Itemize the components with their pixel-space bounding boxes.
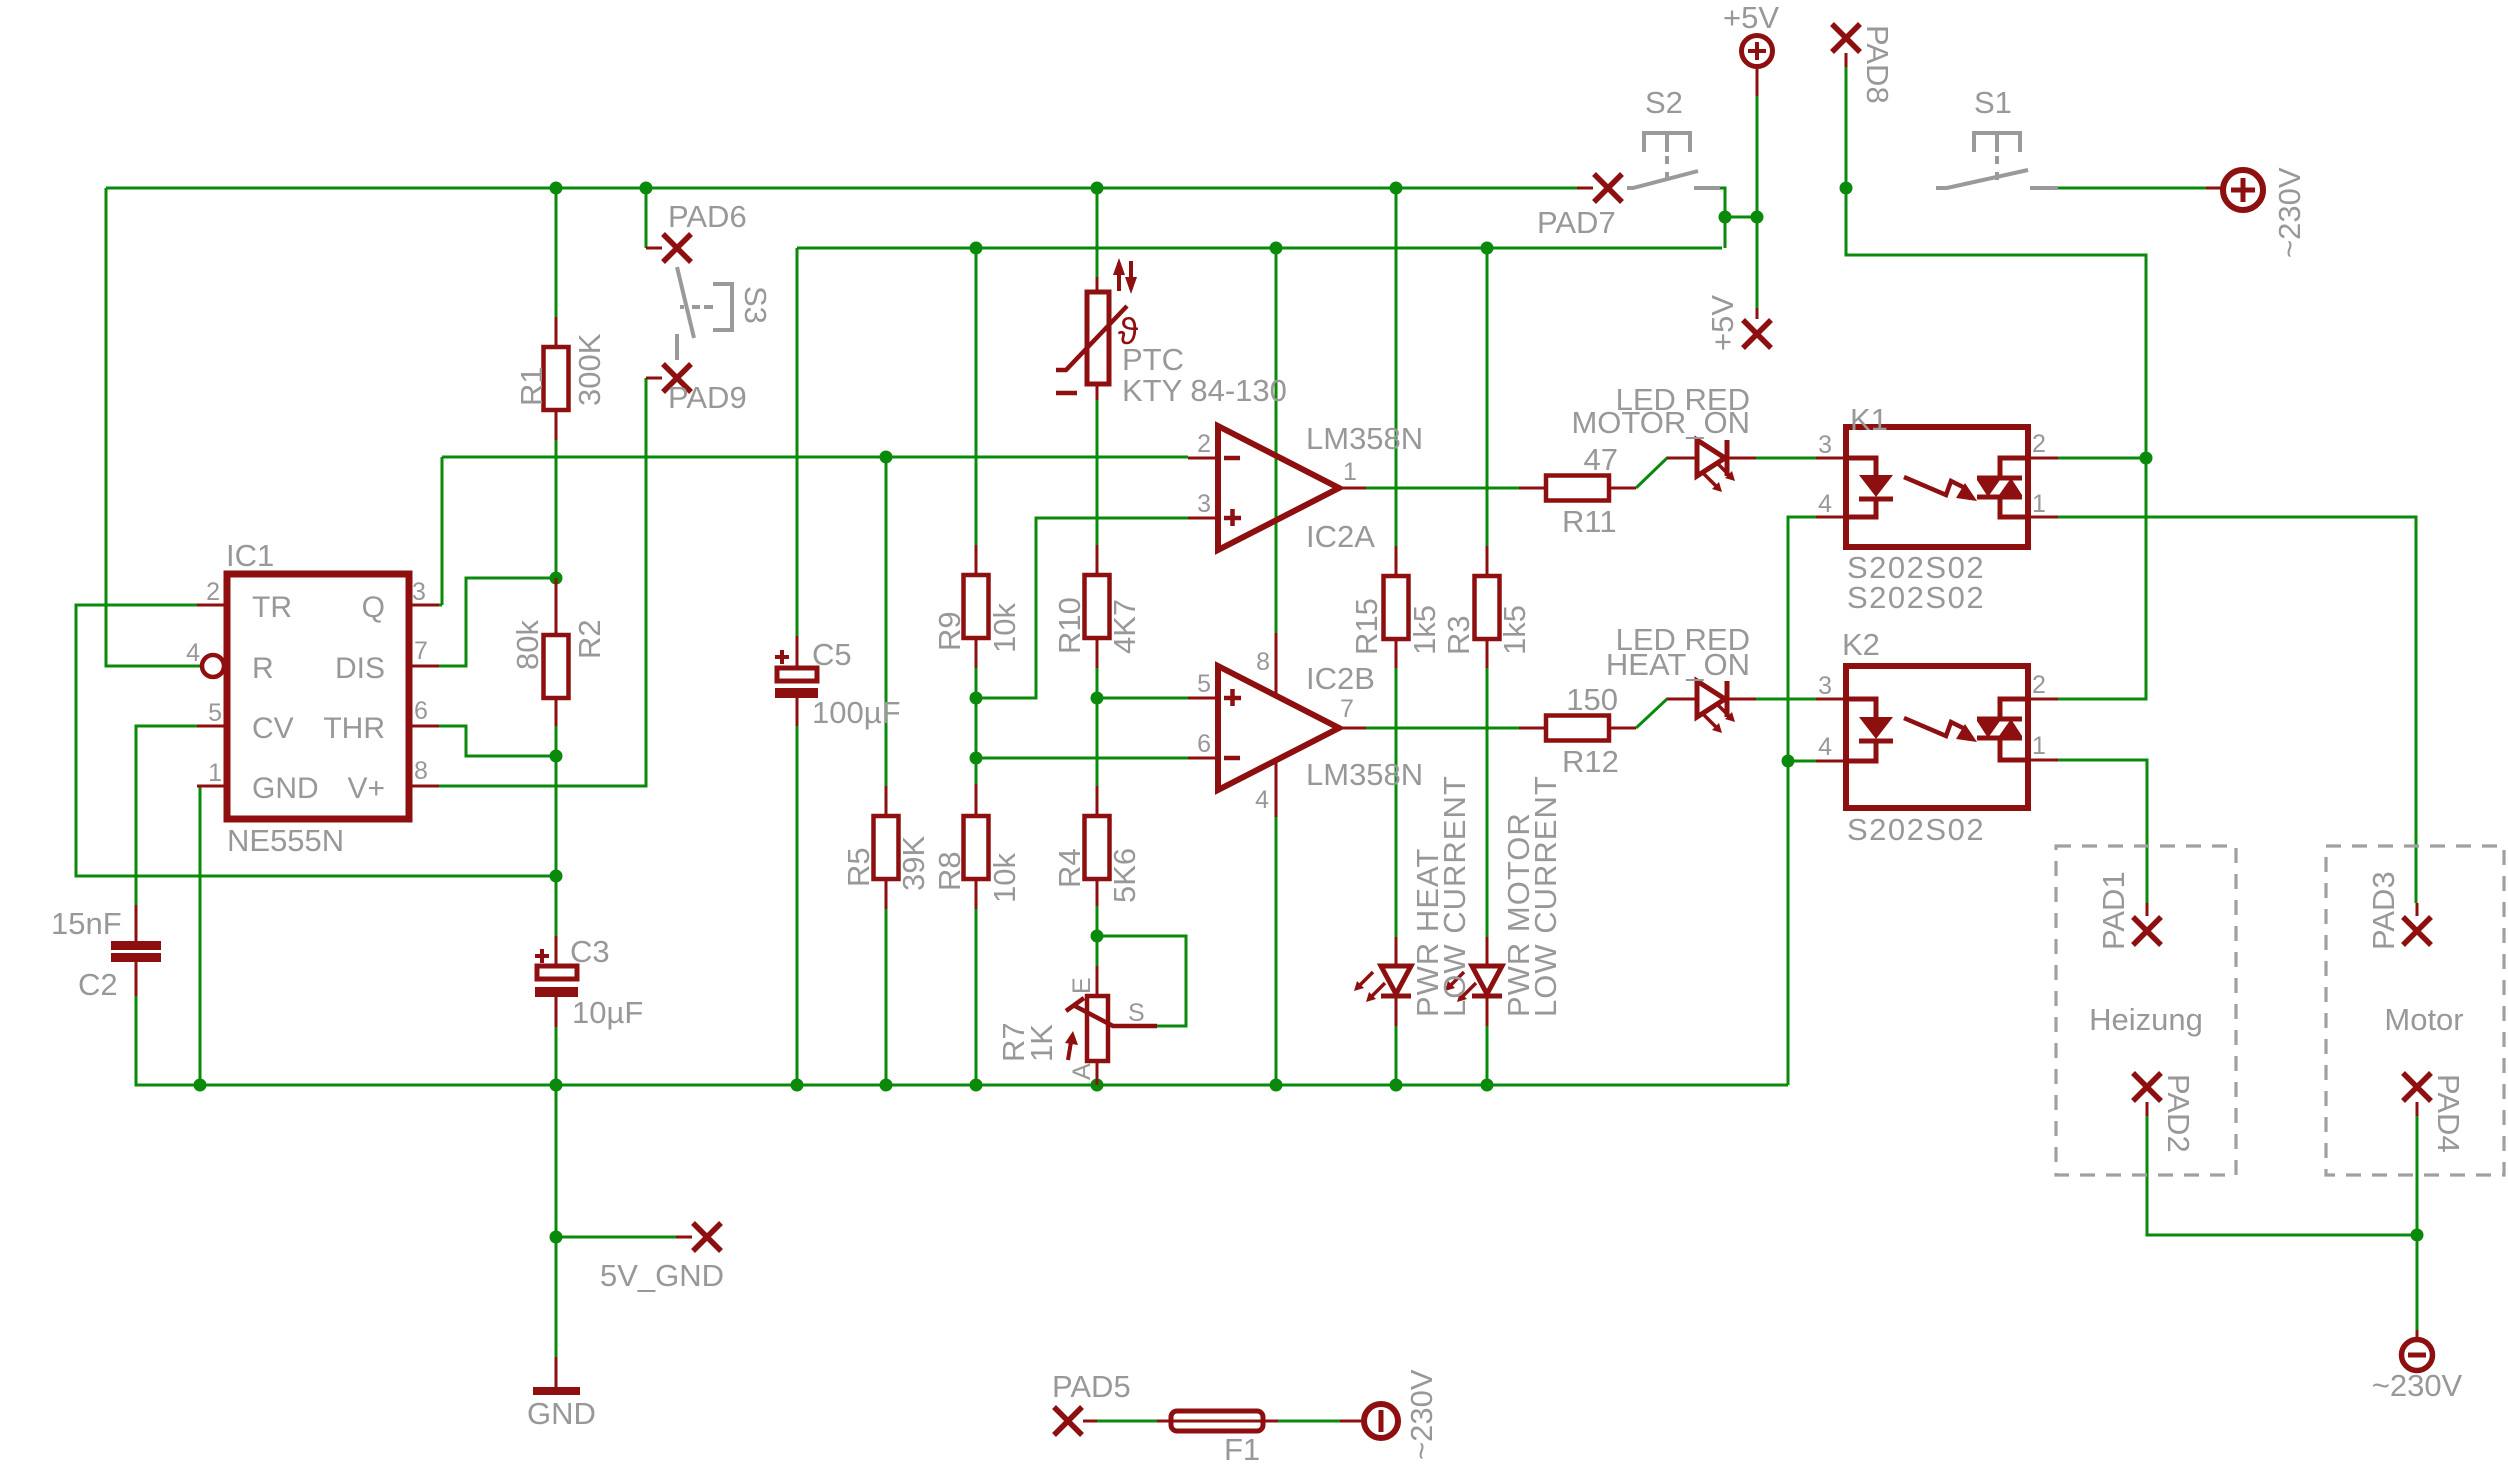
svg-text:2: 2 xyxy=(1197,430,1211,458)
junction xyxy=(1091,692,1104,705)
wire to PAD6 xyxy=(645,188,648,248)
junction xyxy=(791,1079,804,1092)
+5V circle lead xyxy=(1756,66,1759,96)
wire F1 to 230V neutral xyxy=(1278,1420,1340,1423)
resistor R4 xyxy=(1085,816,1110,879)
pad PAD9 cross xyxy=(663,364,691,392)
capacitor C5 top plate xyxy=(777,668,817,681)
junction xyxy=(970,1079,983,1092)
svg-text:R12: R12 xyxy=(1562,744,1619,779)
K2 output triac xyxy=(2000,699,2028,760)
pad PAD7 cross xyxy=(1594,174,1622,202)
wire PWR HEAT LED to GND xyxy=(1395,1026,1398,1085)
resistor R4 bottom lead xyxy=(1096,879,1099,906)
svg-text:R3: R3 xyxy=(1441,615,1476,655)
svg-text:1: 1 xyxy=(208,759,222,787)
optocoupler K2 box xyxy=(1846,666,2028,808)
resistor R10 xyxy=(1085,575,1110,638)
svg-text:PAD8: PAD8 xyxy=(1860,25,1895,104)
op-amp U IC1 NE555N box xyxy=(227,574,409,819)
LED HEAT_ON emission arrows xyxy=(1703,703,1730,728)
capacitor C3 top plate xyxy=(537,966,577,979)
junction xyxy=(970,752,983,765)
K1 pin4 stub xyxy=(1816,516,1846,519)
resistor R9 xyxy=(964,575,989,638)
LED PWR HEAT diode xyxy=(1381,966,1411,994)
svg-text:E: E xyxy=(1068,977,1096,994)
wire LED to K1 pin3 xyxy=(1756,457,1816,460)
resistor R15 xyxy=(1384,576,1409,639)
svg-text:10k: 10k xyxy=(987,603,1022,653)
wire IC2A out to R11 xyxy=(1366,487,1519,490)
svg-text:7: 7 xyxy=(1340,695,1354,723)
trimmer R7 body xyxy=(1087,996,1108,1061)
junction xyxy=(1270,242,1283,255)
IC2B minus symbol xyxy=(1224,756,1240,761)
svg-text:PTC: PTC xyxy=(1122,342,1184,377)
thermistor PTC arrows xyxy=(1117,263,1121,291)
wire C5 bottom xyxy=(796,726,799,1085)
svg-text:5V_GND: 5V_GND xyxy=(600,1258,724,1293)
K2 pin3 stub xyxy=(1816,698,1846,701)
wire R11 to LED xyxy=(1636,458,1697,488)
capacitor C2 bottom lead xyxy=(135,962,138,996)
svg-text:HEAT_ON: HEAT_ON xyxy=(1606,647,1750,682)
PAD4 lead xyxy=(2416,1102,2419,1116)
wire IC2B V+ column xyxy=(1275,248,1278,633)
junction xyxy=(550,870,563,883)
K1 coupling arrow xyxy=(1904,477,1963,495)
wire DIS jog xyxy=(439,578,556,666)
IC2B -in stub xyxy=(1188,757,1218,760)
svg-text:S202S02: S202S02 xyxy=(1847,580,1985,615)
resistor R8 top lead xyxy=(975,784,978,816)
PAD2 lead xyxy=(2146,1102,2149,1116)
PAD9 lead xyxy=(646,377,662,380)
svg-text:80k: 80k xyxy=(510,620,545,670)
K2 input LED xyxy=(1846,699,1876,761)
svg-text:+5V: +5V xyxy=(1705,295,1740,351)
IC2B +in stub xyxy=(1188,697,1218,700)
wire K1 pin2 row xyxy=(2058,457,2146,460)
svg-text:GND: GND xyxy=(527,1396,596,1431)
K1 pin3 stub xyxy=(1816,457,1846,460)
svg-text:PAD1: PAD1 xyxy=(2096,871,2131,950)
wire IC2B V- column xyxy=(1275,817,1278,1085)
svg-text:100µF: 100µF xyxy=(812,695,901,730)
IC2B V+ pin stub xyxy=(1275,633,1278,697)
junction xyxy=(550,1079,563,1092)
svg-text:LM358N: LM358N xyxy=(1306,421,1423,456)
PAD8 lead xyxy=(1845,53,1848,67)
svg-text:2: 2 xyxy=(2032,671,2046,699)
PAD7 lead xyxy=(1577,187,1593,190)
resistor R10 bottom lead xyxy=(1096,638,1099,668)
wire to IC1 pin4 R xyxy=(106,188,202,666)
wire R4 to R7 xyxy=(1096,906,1099,966)
+5V pad lead xyxy=(1756,308,1759,319)
svg-text:R4: R4 xyxy=(1052,848,1087,888)
svg-text:R: R xyxy=(252,652,274,685)
svg-text:C3: C3 xyxy=(570,934,610,969)
junction xyxy=(1840,182,1853,195)
capacitor C5 bottom plate xyxy=(775,688,818,698)
svg-text:V+: V+ xyxy=(347,772,385,805)
wire IC2B out to R12 xyxy=(1366,727,1519,730)
wire R1 bottom to node xyxy=(555,440,558,578)
wire to IC2A +in xyxy=(976,518,1188,698)
resistor R3 top lead xyxy=(1486,546,1489,576)
K2 pin1 stub xyxy=(2028,759,2058,762)
K1 pin1 stub xyxy=(2028,516,2058,519)
svg-text:PAD2: PAD2 xyxy=(2161,1074,2196,1153)
svg-text:R9: R9 xyxy=(932,611,967,651)
wire R9 top xyxy=(975,248,978,545)
wire +5V rail B xyxy=(797,247,1722,250)
svg-text:MOTOR_ON: MOTOR_ON xyxy=(1571,405,1750,440)
wire PTC top xyxy=(1096,188,1099,277)
svg-text:3: 3 xyxy=(412,578,426,606)
wire PAD2 down xyxy=(2147,1116,2417,1235)
wire CV to C2 xyxy=(136,726,197,905)
capacitor C3 bottom lead xyxy=(555,997,558,1027)
svg-text:IC2B: IC2B xyxy=(1306,661,1375,696)
svg-text:PAD6: PAD6 xyxy=(668,199,747,234)
Heizung dashed box xyxy=(2056,846,2236,1175)
svg-text:C5: C5 xyxy=(812,637,852,672)
svg-text:S2: S2 xyxy=(1645,85,1683,120)
pad +5V cross xyxy=(1743,320,1771,348)
LED PWR MOTOR diode xyxy=(1472,966,1502,994)
IC2B plus symbol xyxy=(1224,689,1241,706)
capacitor C2 top lead xyxy=(135,905,138,941)
LED MOTOR_ON anode lead xyxy=(1667,457,1697,460)
wire to 5V_GND pad xyxy=(556,1236,676,1239)
svg-text:1: 1 xyxy=(2032,490,2046,518)
resistor R12 xyxy=(1546,716,1609,741)
svg-text:S: S xyxy=(1128,999,1145,1027)
LED PWR MOTOR bottom lead xyxy=(1486,996,1489,1026)
LED MOTOR_ON cathode lead xyxy=(1727,457,1756,460)
junction xyxy=(880,1079,893,1092)
svg-text:F1: F1 xyxy=(1224,1432,1260,1465)
junction xyxy=(194,1079,207,1092)
svg-text:C2: C2 xyxy=(78,967,118,1002)
wire S1 to 230V live xyxy=(2058,187,2206,190)
svg-text:3: 3 xyxy=(1197,490,1211,518)
op-amp IC2B triangle xyxy=(1218,666,1339,790)
IC1 pin 7 stub xyxy=(409,665,439,668)
IC1 pin 4 inversion bubble xyxy=(202,655,224,677)
junction xyxy=(1481,1079,1494,1092)
svg-text:47: 47 xyxy=(1584,442,1618,477)
junction xyxy=(1390,1079,1403,1092)
thermistor PTC strike line xyxy=(1056,306,1127,370)
trimmer R7 adjust arrow xyxy=(1068,1036,1072,1060)
GND symbol lead xyxy=(555,1357,558,1389)
op-amp IC2A triangle xyxy=(1218,426,1339,550)
svg-text:1k5: 1k5 xyxy=(1497,605,1532,655)
wire K1 pin4 to GND rail xyxy=(1788,517,1816,1085)
junction xyxy=(1390,182,1403,195)
pad 5V_GND cross xyxy=(693,1223,721,1251)
resistor R2 bottom lead xyxy=(555,698,558,726)
svg-text:8: 8 xyxy=(1256,648,1270,676)
svg-text:39K: 39K xyxy=(896,836,931,891)
resistor R9 bottom lead xyxy=(975,638,978,668)
svg-text:3: 3 xyxy=(1818,672,1832,700)
IC1 pin 6 stub xyxy=(409,725,439,728)
capacitor C2 plates xyxy=(111,941,161,950)
resistor R12 right lead xyxy=(1609,727,1636,730)
resistor R9 top lead xyxy=(975,545,978,575)
resistor R15 top lead xyxy=(1395,546,1398,576)
junction xyxy=(640,182,653,195)
ground GND bar xyxy=(533,1387,580,1395)
IC1 pin 2 stub xyxy=(197,604,227,607)
LED PWR HEAT top lead xyxy=(1395,937,1398,966)
svg-text:1k5: 1k5 xyxy=(1407,605,1442,655)
wire C3 bottom to GND rail xyxy=(555,1027,558,1085)
junction xyxy=(1481,242,1494,255)
resistor R5 bottom lead xyxy=(885,879,888,909)
resistor R1 xyxy=(544,347,569,410)
LED PWR HEAT emission arrows xyxy=(1359,972,1385,997)
svg-text:~230V: ~230V xyxy=(1404,1369,1439,1460)
wire R2 bottom xyxy=(555,726,558,756)
svg-text:IC1: IC1 xyxy=(226,538,274,573)
resistor R8 bottom lead xyxy=(975,879,978,909)
optocoupler K1 box xyxy=(1846,427,2028,547)
wire +5V rail top xyxy=(106,187,1577,190)
svg-text:K2: K2 xyxy=(1842,627,1880,662)
230V neutral lead xyxy=(1340,1420,1364,1423)
wire THR jog xyxy=(439,726,556,756)
pad PAD1 cross xyxy=(2133,917,2161,945)
svg-text:10k: 10k xyxy=(987,853,1022,903)
switch S1 xyxy=(1936,170,2028,188)
svg-text:Motor: Motor xyxy=(2384,1002,2463,1037)
svg-text:LOW CURRENT: LOW CURRENT xyxy=(1528,775,1563,1017)
wire IC1 pin1 GND down xyxy=(197,786,200,1085)
wire K2 pin4 branch xyxy=(1788,760,1816,763)
svg-text:6: 6 xyxy=(414,697,428,725)
pad PAD2 cross xyxy=(2133,1073,2161,1101)
resistor R3 xyxy=(1475,576,1500,639)
svg-text:PAD9: PAD9 xyxy=(668,380,747,415)
wire C2 bottom to GND rail xyxy=(136,996,197,1085)
svg-text:CV: CV xyxy=(252,712,294,745)
svg-text:LM358N: LM358N xyxy=(1306,757,1423,792)
wire PAD4 to 230V return xyxy=(2416,1116,2419,1330)
junction xyxy=(1782,755,1795,768)
PAD3 lead xyxy=(2416,903,2419,916)
resistor R1 bottom lead xyxy=(555,410,558,440)
wire +5V column xyxy=(1756,96,1759,308)
LED HEAT_ON anode lead xyxy=(1667,698,1697,701)
PAD6 lead xyxy=(646,247,662,250)
wire R7 wiper loop xyxy=(1097,936,1186,1026)
IC2B out stub xyxy=(1339,727,1366,730)
svg-text:2: 2 xyxy=(2032,430,2046,458)
svg-text:8: 8 xyxy=(414,757,428,785)
resistor R4 top lead xyxy=(1096,786,1099,816)
wire PWR MOTOR LED to GND xyxy=(1486,1026,1489,1085)
junction xyxy=(1719,211,1732,224)
resistor R15 bottom lead xyxy=(1395,639,1398,668)
wire to C3 top xyxy=(555,876,558,936)
trimmer R7 bottom lead xyxy=(1096,1061,1099,1085)
230V live lead xyxy=(2206,187,2222,190)
5V_GND lead xyxy=(676,1236,692,1239)
thermistor PTC bottom lead xyxy=(1096,384,1099,400)
capacitor C5 plus sign xyxy=(775,650,789,664)
resistor R11 xyxy=(1546,476,1609,501)
junction xyxy=(1270,1079,1283,1092)
resistor R2 top lead xyxy=(555,578,558,635)
wire R3 top xyxy=(1486,248,1489,546)
IC1 pin 5 stub xyxy=(197,725,227,728)
svg-text:4: 4 xyxy=(186,639,200,667)
svg-text:LOW CURRENT: LOW CURRENT xyxy=(1437,775,1472,1017)
wire R9-R8 link xyxy=(975,668,978,784)
thermistor PTC top lead xyxy=(1096,277,1099,292)
capacitor C5 bottom lead xyxy=(796,698,799,726)
wire V+ row to PAD9 xyxy=(439,378,646,786)
svg-text:R5: R5 xyxy=(841,847,876,887)
junction xyxy=(1091,930,1104,943)
svg-text:150: 150 xyxy=(1566,682,1618,717)
junction xyxy=(550,1231,563,1244)
svg-text:R15: R15 xyxy=(1349,598,1384,655)
LED HEAT_ON cathode lead xyxy=(1727,698,1756,701)
capacitor C3 plus sign xyxy=(535,949,549,963)
junction xyxy=(970,692,983,705)
wire PAD8/S1 to K2 pin2 xyxy=(1846,67,2146,699)
svg-text:THR: THR xyxy=(323,712,385,745)
trimmer R7 top lead xyxy=(1096,966,1099,996)
thermistor PTC body xyxy=(1087,292,1109,384)
wire LED to K2 pin3 xyxy=(1756,698,1816,701)
K2 pin2 stub xyxy=(2028,698,2058,701)
svg-text:DIS: DIS xyxy=(335,652,385,685)
svg-text:1: 1 xyxy=(1343,458,1357,486)
LED PWR HEAT bottom lead xyxy=(1395,996,1398,1026)
wire +5V bridge xyxy=(1725,216,1757,219)
junction xyxy=(1091,1079,1104,1092)
svg-text:1: 1 xyxy=(2032,732,2046,760)
IC2A minus symbol xyxy=(1224,456,1240,461)
wire S2 out riser xyxy=(1720,188,1725,248)
wire PTC to R10 xyxy=(1096,400,1099,545)
junction xyxy=(970,242,983,255)
svg-text:NE555N: NE555N xyxy=(227,823,344,858)
PAD1 lead xyxy=(2146,903,2149,916)
resistor R5 top lead xyxy=(885,786,888,816)
svg-text:4: 4 xyxy=(1818,490,1832,518)
K1 output triac xyxy=(2000,458,2028,517)
IC2A -in stub xyxy=(1188,457,1218,460)
capacitor C5 top lead xyxy=(796,636,799,668)
LED PWR MOTOR emission arrows xyxy=(1450,972,1476,997)
IC1 pin 8 stub xyxy=(409,785,439,788)
wire to IC2B -in xyxy=(976,757,1188,760)
pad PAD8 cross xyxy=(1832,24,1860,52)
svg-text:Q: Q xyxy=(362,591,385,624)
wire C5 top xyxy=(796,248,799,636)
svg-text:7: 7 xyxy=(414,637,428,665)
fuse F1 left lead xyxy=(1157,1420,1171,1423)
wire R10-R4 link xyxy=(1096,668,1099,786)
wire R1 top xyxy=(555,188,558,317)
K2 pin4 stub xyxy=(1816,760,1846,763)
fuse F1 right lead xyxy=(1263,1420,1278,1423)
svg-text:GND: GND xyxy=(252,772,319,805)
junction xyxy=(1751,211,1764,224)
svg-text:R8: R8 xyxy=(932,851,967,891)
K1 pin2 stub xyxy=(2028,457,2058,460)
svg-text:~230V: ~230V xyxy=(2372,1368,2463,1403)
svg-text:PAD3: PAD3 xyxy=(2366,871,2401,950)
capacitor C3 top lead xyxy=(555,936,558,966)
pad PAD6 cross xyxy=(663,234,691,262)
wire R15 to PWR HEAT LED xyxy=(1395,668,1398,937)
svg-text:R1: R1 xyxy=(514,366,549,406)
Motor dashed box xyxy=(2326,846,2504,1175)
svg-text:4K7: 4K7 xyxy=(1107,599,1142,654)
svg-text:4: 4 xyxy=(1255,786,1269,814)
wire K1 pin1 to PAD3 xyxy=(2058,517,2416,903)
LED MOTOR_ON emission arrows xyxy=(1703,462,1730,487)
pad PAD3 cross xyxy=(2403,917,2431,945)
svg-text:2: 2 xyxy=(206,578,220,606)
wire THR-TR link xyxy=(555,756,558,876)
trimmer R7 wiper xyxy=(1066,998,1157,1026)
svg-text:5: 5 xyxy=(208,699,222,727)
wire to IC2B +in xyxy=(1097,697,1188,700)
resistor R10 top lead xyxy=(1096,545,1099,575)
svg-text:R10: R10 xyxy=(1052,597,1087,654)
wire R5 bottom xyxy=(885,909,888,1085)
svg-text:5K6: 5K6 xyxy=(1107,848,1142,903)
resistor R11 left lead xyxy=(1519,487,1546,490)
resistor R5 xyxy=(874,816,899,879)
IC1 pin 1 stub xyxy=(197,785,227,788)
LED PWR MOTOR top lead xyxy=(1486,937,1489,966)
230V return lead xyxy=(2416,1330,2419,1339)
junction xyxy=(550,750,563,763)
resistor R8 xyxy=(964,816,989,879)
svg-text:R2: R2 xyxy=(572,619,607,659)
junction xyxy=(1091,182,1104,195)
svg-text:S202S02: S202S02 xyxy=(1847,812,1985,847)
pad PAD4 cross xyxy=(2403,1073,2431,1101)
wire TR loop xyxy=(76,605,556,876)
wire GND stem xyxy=(555,1085,558,1357)
resistor R1 top lead xyxy=(555,317,558,347)
IC1 pin 3 stub xyxy=(409,604,439,607)
svg-text:3: 3 xyxy=(1818,431,1832,459)
svg-text:~230V: ~230V xyxy=(2272,167,2307,258)
junction xyxy=(550,572,563,585)
svg-text:TR: TR xyxy=(252,591,292,624)
svg-text:6: 6 xyxy=(1197,730,1211,758)
wire R5 top xyxy=(885,457,888,786)
resistor R11 right lead xyxy=(1609,487,1636,490)
junction xyxy=(880,451,893,464)
svg-text:Heizung: Heizung xyxy=(2089,1002,2203,1037)
IC2A plus symbol xyxy=(1224,509,1241,526)
